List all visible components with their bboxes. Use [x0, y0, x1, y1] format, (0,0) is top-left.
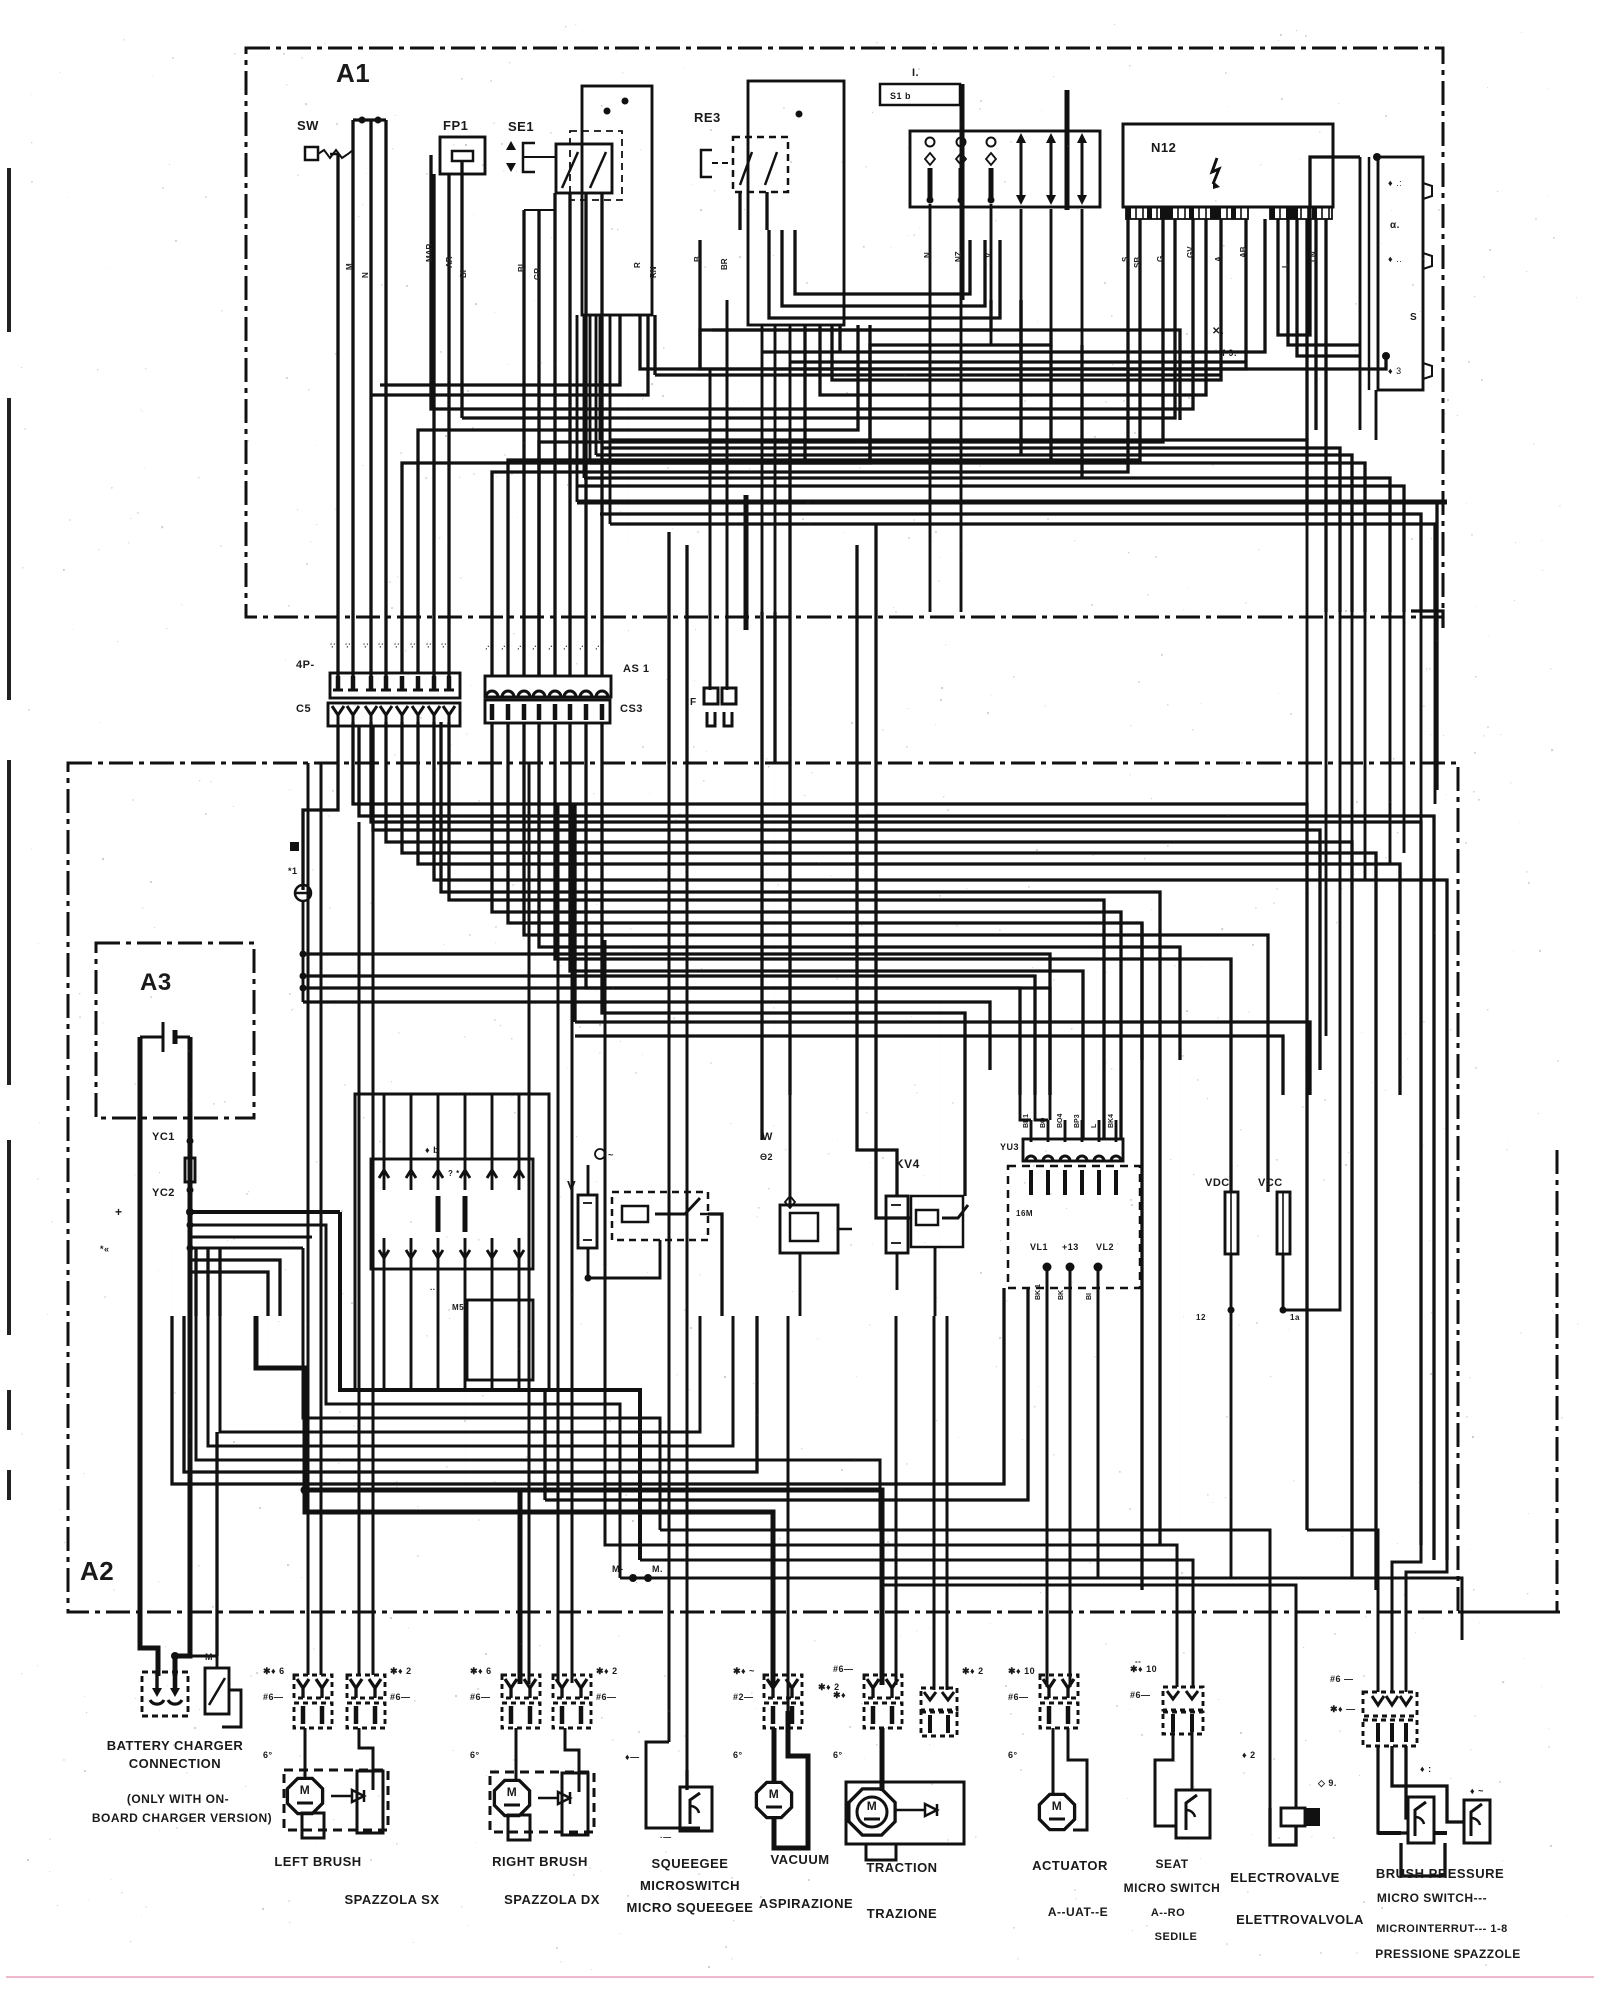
wire bundle h440 — [610, 440, 1307, 520]
wire ECU right pin 1316 — [1314, 219, 1317, 430]
connector vacuum — [764, 1675, 802, 1698]
svg-text:12: 12 — [1196, 1313, 1206, 1322]
wire low h1472 — [184, 1316, 757, 1472]
svg-text:·.: ·. — [576, 645, 585, 650]
motor vacuum — [756, 1782, 791, 1817]
svg-text:M5: M5 — [452, 1303, 464, 1312]
svg-text:+13: +13 — [1062, 1242, 1079, 1252]
wire ll vert 196b — [194, 1248, 197, 1316]
wire low riser 545 — [543, 1390, 546, 1500]
ECU N12 box — [1123, 124, 1333, 207]
svg-text:#6—: #6— — [833, 1664, 854, 1674]
connector K body — [1359, 157, 1362, 430]
svg-text:BR: BR — [720, 258, 729, 270]
svg-text:ELETTROVALVOLA: ELETTROVALVOLA — [1236, 1912, 1364, 1927]
svg-text:6°: 6° — [833, 1750, 843, 1760]
component W wire — [789, 1095, 792, 1205]
svg-text:✱♦ —: ✱♦ — — [1330, 1704, 1356, 1714]
wire gap vertical x1421 — [1420, 612, 1423, 763]
wire gap vertical x1340 — [1339, 612, 1342, 763]
connector C pair — [709, 600, 712, 690]
wire bundle h478 — [584, 478, 1390, 612]
relay KV4 coil — [886, 1196, 908, 1253]
wire brushpressure risers — [1306, 1530, 1308, 1692]
wire bundle h455 — [596, 455, 1352, 612]
svg-text:? *: ? * — [448, 1169, 460, 1178]
wire right drop 1340 — [1339, 763, 1342, 1095]
svg-text:α.: α. — [1390, 220, 1400, 231]
wire gap vertical x1390 — [1389, 612, 1392, 763]
svg-text:·.: ·. — [592, 645, 601, 650]
relay V wires — [587, 1165, 590, 1195]
svg-text:SQUEEGEE: SQUEEGEE — [652, 1856, 729, 1871]
wire brush pressure internal — [1378, 1746, 1408, 1833]
motor left brush box — [284, 1770, 388, 1830]
wire node h954 — [303, 954, 1050, 1095]
wire h1060 — [1142, 1059, 1340, 1061]
connector actuator — [1040, 1675, 1078, 1698]
svg-text:♦ .:: ♦ .: — [1388, 178, 1402, 188]
svg-text:S: S — [1121, 256, 1130, 262]
svg-text:16M: 16M — [1016, 1209, 1033, 1218]
wire vacuum pair — [787, 1316, 790, 1711]
wire bp from right verticals — [1307, 1530, 1378, 1692]
ECU pin comb — [1126, 207, 1248, 219]
junction dots h1578 — [629, 1574, 637, 1582]
fuse FP1 — [440, 137, 485, 174]
svg-text:M: M — [769, 1787, 780, 1801]
svg-text:·.: ·. — [498, 645, 507, 650]
svg-text:#2—: #2— — [733, 1692, 754, 1702]
svg-text:◇ 9.: ◇ 9. — [1317, 1778, 1337, 1788]
wire diode col drops2 — [1019, 300, 1022, 362]
wire h1530 — [660, 1530, 1270, 1808]
svg-text:BRUSH PRESSURE: BRUSH PRESSURE — [1376, 1866, 1504, 1881]
wire branch drop — [338, 1212, 342, 1316]
svg-text:·:: ·: — [424, 643, 433, 648]
wire actuator internal — [1052, 1728, 1055, 1794]
svg-text:1a: 1a — [1290, 1313, 1300, 1322]
svg-text:♦ ~: ♦ ~ — [1470, 1786, 1484, 1796]
svg-text:6°: 6° — [470, 1750, 480, 1760]
wire bundle h524 — [610, 524, 1435, 612]
wire right drop 1326 — [1325, 763, 1328, 1036]
wire ECU right pin 1307 — [1305, 219, 1308, 440]
wire box B2 drops — [761, 325, 764, 612]
svg-text:M: M — [345, 263, 354, 270]
wire pair to right brush — [515, 1512, 517, 1684]
wire SE1 drops — [553, 193, 556, 676]
svg-text:VACUUM: VACUUM — [770, 1852, 829, 1867]
wire right vertical 1104 — [1103, 900, 1105, 1139]
relay V contact box — [612, 1192, 708, 1240]
junction dots left node — [300, 951, 307, 958]
svg-text:MICRO SWITCH: MICRO SWITCH — [1124, 1881, 1221, 1895]
svg-text:VDC: VDC — [1205, 1177, 1230, 1189]
svg-text:B: B — [693, 256, 702, 262]
box A2 right extension dashed — [1458, 1611, 1560, 1614]
svg-text:f 9.: f 9. — [1222, 348, 1237, 358]
wire ll vert drops — [267, 1316, 269, 1368]
wire node h1002 — [303, 1002, 990, 1070]
wire right h804 join — [1307, 803, 1435, 805]
svg-text:·:: ·: — [439, 643, 448, 648]
svg-text:✱♦ 2: ✱♦ 2 — [596, 1666, 618, 1676]
wire right vertical 1121 — [1120, 912, 1122, 1139]
wire cascade extra 3 — [441, 722, 1160, 1545]
wire A1-A2 right drop b — [1340, 612, 1352, 700]
actuator driver box — [1008, 1166, 1140, 1288]
svg-text:BO4: BO4 — [1057, 1114, 1064, 1129]
wire gap cross 762 — [760, 612, 763, 763]
wire ll stub h1260 — [190, 1260, 280, 1316]
wire ECU pin riser 1206 — [820, 219, 1206, 395]
wire nested loop U2 — [782, 230, 985, 306]
wire low h1500 — [545, 1288, 1028, 1500]
box A3 dashed border — [96, 943, 254, 1118]
svg-text:ASPIRAZIONE: ASPIRAZIONE — [759, 1896, 853, 1911]
svg-text:#6—: #6— — [390, 1692, 411, 1702]
wire right drop 1435 — [1434, 763, 1437, 804]
svg-text:♦ 3: ♦ 3 — [1388, 366, 1402, 376]
svg-text:#6—: #6— — [263, 1692, 284, 1702]
svg-text:YC2: YC2 — [152, 1187, 175, 1199]
wire 1231 drop join — [1230, 1577, 1232, 1579]
wire long h369 to K — [640, 315, 1386, 369]
wire squeegee drop — [668, 1316, 671, 1742]
svg-text:VCC: VCC — [1258, 1177, 1283, 1189]
svg-text:SB: SB — [1133, 257, 1142, 268]
battery wire minus — [140, 1037, 158, 1676]
wire pin B1 riser — [492, 219, 1128, 676]
svg-text:6°: 6° — [733, 1750, 743, 1760]
wire left pair to brushes — [307, 763, 310, 1675]
wire ll stub h1272 — [190, 1272, 268, 1316]
wire pin A1 to left node — [303, 726, 338, 890]
wire seat internal — [1172, 1732, 1174, 1790]
wire sw drop joins — [330, 153, 338, 156]
wire cascade h385 — [380, 315, 620, 385]
svg-text:N12: N12 — [1151, 140, 1176, 155]
wire charger aux riser — [215, 1432, 218, 1656]
svg-text:#6—: #6— — [1130, 1690, 1151, 1700]
svg-text:SPAZZOLA DX: SPAZZOLA DX — [504, 1892, 600, 1907]
svg-text:A2: A2 — [80, 1556, 114, 1586]
connector AS1/CS3 block — [485, 676, 611, 697]
wire rb second pair — [557, 804, 560, 1683]
wire h352 long — [762, 219, 1265, 352]
ground symbol node — [295, 885, 311, 901]
wire lb second pair — [358, 822, 361, 1675]
wire gap vertical x1352 — [1351, 612, 1354, 763]
wire ECU right pin 1278 — [1278, 157, 1360, 335]
svg-text:#6 —: #6 — — [1330, 1674, 1354, 1684]
box S10 header — [880, 84, 960, 105]
connector AP2/YC5 block — [330, 673, 460, 698]
wire cascade extra 4 — [457, 722, 1096, 1120]
wire KV4 riser long — [857, 545, 897, 1196]
svg-text:NZ: NZ — [954, 251, 963, 262]
svg-text:♦ 2: ♦ 2 — [1242, 1750, 1256, 1760]
svg-text:M: M — [300, 1783, 311, 1797]
bus thick vertical 2 — [1065, 90, 1070, 210]
motor right brush stem — [508, 1815, 530, 1840]
wire 762 down — [760, 763, 763, 1140]
scan artifact line — [6, 1976, 1594, 1978]
motor actuator — [1039, 1794, 1074, 1829]
wire right drop 1390 — [1389, 763, 1392, 864]
wire KV4 contact riser — [876, 524, 911, 1218]
wire 775 down — [774, 763, 776, 1036]
svg-text:A: A — [1214, 256, 1223, 262]
svg-text:LEFT BRUSH: LEFT BRUSH — [274, 1854, 361, 1869]
svg-text:SE1: SE1 — [508, 119, 534, 134]
wire h340 long — [723, 340, 1140, 430]
wire gap cross 775 — [773, 612, 776, 763]
wire cascade extra 1 — [359, 726, 1434, 1560]
relay V coil — [578, 1195, 597, 1248]
wire h545 — [628, 544, 687, 546]
wire cascade extra 2 — [373, 726, 1320, 1070]
svg-text:LN: LN — [1309, 251, 1318, 262]
rectifier box D1 — [910, 131, 1100, 207]
wire nested loop U1 — [769, 230, 1000, 318]
wire electrovalve loop — [1270, 1826, 1296, 1845]
svg-text:SW: SW — [297, 118, 319, 133]
wire h375 span — [655, 373, 1221, 376]
wire ECU pin riser 1246 — [700, 219, 1246, 369]
battery wire plus — [175, 1037, 190, 1676]
svg-text:A1: A1 — [336, 58, 370, 88]
svg-text:✱♦ 6: ✱♦ 6 — [470, 1666, 492, 1676]
motor left brush — [287, 1778, 322, 1813]
wire nested loop U3 — [795, 230, 970, 294]
svg-text:MICRO SWITCH---: MICRO SWITCH--- — [1377, 1891, 1487, 1905]
wire low h1432 — [220, 1316, 700, 1432]
wire node h976 — [303, 976, 1035, 1095]
junction dot battery branch — [186, 1208, 194, 1216]
svg-text:R: R — [633, 262, 642, 268]
motor left brush stem — [302, 1813, 324, 1838]
svg-text:A--RO: A--RO — [1151, 1907, 1185, 1919]
wire connector C pair — [709, 370, 712, 630]
connector left brush 1 — [294, 1675, 332, 1698]
wire h1022 pair — [575, 1022, 1310, 1095]
wire low h1404 — [326, 1316, 620, 1578]
wire pin B4 riser — [539, 219, 1163, 676]
wire right brush internal — [515, 1728, 518, 1779]
wire h433 span — [462, 432, 640, 434]
svg-text:M: M — [205, 1652, 213, 1662]
svg-text:GV: GV — [1186, 246, 1195, 258]
wire B2 extra drops — [803, 325, 806, 463]
svg-text:M: M — [507, 1785, 518, 1799]
node marks — [290, 842, 299, 851]
wire ECU right pin 1288 — [1288, 219, 1359, 345]
svg-text:BOARD CHARGER VERSION): BOARD CHARGER VERSION) — [92, 1811, 272, 1825]
wire low h1484 — [172, 1288, 1004, 1484]
junction dots K — [1373, 153, 1381, 161]
wire FP1 leads — [432, 174, 435, 676]
svg-text:✱♦ ~: ✱♦ ~ — [733, 1666, 755, 1676]
svg-text:SEDILE: SEDILE — [1155, 1931, 1198, 1943]
svg-text:W: W — [762, 1131, 773, 1143]
wire mid drops to bottom — [639, 1559, 641, 1561]
svg-text:·:: ·: — [328, 643, 337, 648]
svg-text:#6—: #6— — [596, 1692, 617, 1702]
wire h1070 pair — [990, 1069, 1340, 1071]
wire ll horiz 1225 ext — [189, 1224, 191, 1226]
junction dot fuse — [1228, 1307, 1235, 1314]
switch brush pressure 1 — [1408, 1797, 1434, 1843]
svg-text:N: N — [923, 252, 932, 258]
svg-text:..: .. — [430, 1283, 435, 1292]
wire low h1446 — [208, 1316, 733, 1446]
motor traction box — [846, 1782, 964, 1844]
svg-text:TRAZIONE: TRAZIONE — [867, 1906, 937, 1921]
connector traction 2 — [921, 1688, 957, 1710]
svg-text:G: G — [1156, 256, 1165, 262]
motor right brush box — [490, 1772, 594, 1832]
wire h330 long — [712, 330, 1180, 420]
wire extra vert 575 — [574, 486, 576, 676]
wire long vertical squeegee pair — [668, 763, 671, 1316]
wire K drop 1 — [1375, 390, 1378, 440]
wire gap vertical x1326 — [1325, 612, 1328, 763]
svg-text:GR: GR — [533, 268, 542, 280]
scan streak left dots — [7, 1390, 11, 1430]
wire thick power L2 — [305, 1490, 773, 1687]
component W box — [780, 1205, 838, 1253]
wire h1560 — [640, 1560, 1193, 1687]
svg-text:(ONLY WITH ON-: (ONLY WITH ON- — [127, 1792, 229, 1806]
box A1 dashed border — [246, 48, 1443, 617]
wire low h1460 — [196, 1316, 880, 1530]
motor right brush — [494, 1780, 529, 1815]
svg-text:FP1: FP1 — [443, 118, 468, 133]
charger aux wires — [216, 1656, 219, 1668]
svg-text:·.: ·. — [514, 645, 523, 650]
motor traction stem — [866, 1844, 896, 1860]
svg-text:ELECTROVALVE: ELECTROVALVE — [1230, 1870, 1340, 1885]
junction ll — [187, 1222, 194, 1229]
svg-text:A3: A3 — [140, 969, 172, 996]
wire pin A5 riser — [402, 325, 870, 674]
wire cascade A2 bundle — [353, 722, 1307, 1530]
wire ll vert 208b — [206, 1248, 209, 1316]
svg-text:✱♦ 10: ✱♦ 10 — [1008, 1666, 1035, 1676]
wire h532 — [618, 531, 669, 533]
wire bundle h463 — [590, 463, 1365, 612]
wire diode h330 — [870, 330, 1051, 463]
svg-text:L: L — [1281, 263, 1290, 268]
wire A1-A2 right drop a — [1306, 520, 1309, 810]
svg-text:4P-: 4P- — [296, 659, 315, 671]
wire right vertical 1142 — [1140, 923, 1143, 1590]
wire low h1390 — [340, 1316, 640, 1560]
svg-text:6°: 6° — [263, 1750, 273, 1760]
svg-text:SPAZZOLA SX: SPAZZOLA SX — [344, 1892, 439, 1907]
svg-text:BK: BK — [1058, 1290, 1065, 1300]
svg-text:PRESSIONE SPAZZOLE: PRESSIONE SPAZZOLE — [1375, 1947, 1520, 1961]
wire ECU right pin 1326 — [1324, 219, 1327, 612]
junction dot B2 — [796, 111, 803, 118]
wire bundle h514 — [600, 514, 1421, 612]
connector K bumps — [1423, 183, 1432, 199]
wire ll vert 220b — [218, 1248, 221, 1316]
ECU comb extra fill — [1160, 207, 1173, 219]
svg-text:BP3: BP3 — [1074, 1114, 1081, 1128]
wire squeegee bracket — [646, 1742, 669, 1790]
contactor sub box — [467, 1300, 533, 1380]
svg-text:·:: ·: — [361, 643, 370, 648]
svg-text:♦ :: ♦ : — [1420, 1764, 1432, 1774]
svg-text:SEAT: SEAT — [1155, 1857, 1188, 1871]
svg-text:TRACTION: TRACTION — [866, 1860, 937, 1875]
wire right drop 1421 — [1420, 763, 1423, 822]
svg-text:BI: BI — [517, 264, 526, 272]
diode traction — [925, 1804, 937, 1816]
svg-text:VL2: VL2 — [1096, 1242, 1114, 1252]
junction dots SW bar — [359, 117, 366, 124]
wire thick power L1 — [256, 1316, 520, 1684]
battery BT plates — [162, 1022, 165, 1052]
svg-text:M.: M. — [652, 1564, 663, 1574]
svg-text:M: M — [1052, 1799, 1063, 1813]
wire gap vertical x1435 — [1434, 612, 1437, 763]
wire RE3 drops — [738, 192, 741, 230]
wire 6pin riser bend — [1049, 1095, 1052, 1120]
corner A1 bottom-right solid — [1411, 611, 1443, 628]
svg-text:6°: 6° — [1008, 1750, 1018, 1760]
wire pin B2 riser — [508, 219, 1140, 676]
wire h1585 — [880, 1585, 1296, 1808]
svg-text:♦—: ♦— — [625, 1752, 640, 1762]
wire contactor below drops — [437, 1390, 439, 1512]
wire SW top bar — [353, 118, 386, 121]
wire squeegee into switch — [685, 1770, 688, 1790]
svg-text:*1: *1 — [288, 866, 298, 876]
svg-text:ACTUATOR: ACTUATOR — [1032, 1858, 1108, 1873]
contactor box outer — [355, 1094, 549, 1390]
wire right vertical 1180 — [1179, 947, 1181, 1530]
svg-text:AB: AB — [1239, 246, 1248, 258]
wire ll verts from battery col — [171, 1248, 173, 1316]
svg-text:MICROINTERRUT--- 1-8: MICROINTERRUT--- 1-8 — [1376, 1923, 1508, 1935]
svg-text:·:: ·: — [343, 643, 352, 648]
wire diode drop joins — [1019, 300, 1022, 455]
svg-text:#6—: #6— — [1008, 1692, 1029, 1702]
wire right drop 1404 — [1403, 763, 1406, 853]
wire low h1418 — [303, 1248, 660, 1530]
wire low left risers — [195, 1248, 197, 1316]
wire actuator leads — [1046, 1267, 1049, 1687]
svg-text:·.: ·. — [545, 645, 554, 650]
wire battery branch right — [190, 1210, 340, 1214]
wire h1545 — [605, 940, 1177, 1687]
wire h1578 bus — [620, 1578, 1462, 1640]
svg-text:S: S — [1410, 312, 1417, 323]
relay RE3 lead — [701, 150, 712, 177]
svg-text:+: + — [115, 1205, 123, 1219]
wire loop box B1 — [582, 86, 652, 315]
switch SW — [305, 147, 318, 160]
wire bundle h486 — [577, 486, 1404, 612]
wire fuse drops — [1230, 1254, 1233, 1578]
wire h362 long — [790, 360, 1246, 363]
wire h1590 long — [1142, 1590, 1472, 1692]
wire cascade extra 5 — [578, 722, 940, 1316]
